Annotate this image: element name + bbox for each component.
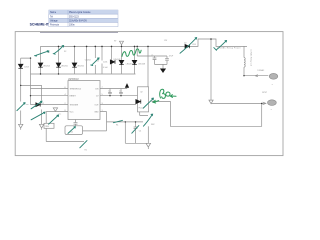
svg-text:TRIGGER: TRIGGER bbox=[70, 105, 79, 107]
svg-text:C2: C2 bbox=[108, 90, 110, 92]
svg-text:D203: D203 bbox=[24, 67, 29, 69]
svg-text:S3: S3 bbox=[97, 61, 99, 63]
svg-text:RMS: RMS bbox=[45, 126, 50, 128]
svg-text:C3: C3 bbox=[119, 90, 121, 92]
svg-text:RL: RL bbox=[116, 125, 118, 127]
svg-text:110v/60v 9V/4.5V: 110v/60v 9V/4.5V bbox=[69, 21, 87, 23]
svg-text:D1N4148: D1N4148 bbox=[114, 59, 121, 61]
svg-text:120VAC: 120VAC bbox=[257, 69, 265, 72]
svg-text:9V: 9V bbox=[114, 41, 117, 43]
svg-text:U2: U2 bbox=[140, 92, 142, 94]
svg-text:0.1uF: 0.1uF bbox=[103, 67, 109, 69]
svg-text:C1: C1 bbox=[151, 55, 153, 57]
svg-text:Potencia: Potencia bbox=[50, 24, 60, 27]
svg-text:SCHEME-IT: SCHEME-IT bbox=[30, 23, 50, 27]
svg-text:D1: D1 bbox=[42, 103, 44, 105]
svg-text:RESET: RESET bbox=[70, 96, 77, 98]
svg-text:Tel: Tel bbox=[50, 16, 53, 18]
svg-text:1: 1 bbox=[102, 110, 103, 112]
svg-text:DPST: DPST bbox=[262, 92, 268, 94]
svg-text:555-0123: 555-0123 bbox=[69, 16, 79, 18]
svg-text:4: 4 bbox=[65, 94, 66, 96]
svg-text:3: 3 bbox=[102, 103, 103, 105]
svg-text:110VAC Relay Coil: 110VAC Relay Coil bbox=[249, 49, 252, 66]
svg-text:6: 6 bbox=[65, 87, 66, 89]
svg-text:S2: S2 bbox=[64, 51, 66, 53]
svg-text:C4: C4 bbox=[139, 131, 141, 133]
svg-text:GND: GND bbox=[94, 111, 99, 113]
svg-text:7: 7 bbox=[102, 87, 103, 89]
svg-text:LED206: LED206 bbox=[77, 66, 84, 68]
svg-text:D2: D2 bbox=[184, 42, 186, 44]
svg-text:LM555CM: LM555CM bbox=[68, 79, 79, 81]
svg-text:2: 2 bbox=[65, 103, 66, 105]
svg-text:120VAC Relay Power: 120VAC Relay Power bbox=[217, 47, 241, 50]
svg-text:THRESHOLD: THRESHOLD bbox=[70, 88, 82, 90]
svg-text:Placa Logica Celeste: Placa Logica Celeste bbox=[69, 11, 91, 14]
svg-text:LED208: LED208 bbox=[138, 63, 145, 65]
svg-text:C201: C201 bbox=[103, 62, 108, 64]
svg-text:12V: 12V bbox=[164, 40, 168, 42]
svg-text:Voltage: Voltage bbox=[50, 20, 58, 23]
svg-text:CR202: CR202 bbox=[85, 60, 91, 62]
svg-text:LED207: LED207 bbox=[126, 63, 133, 65]
svg-text:CR4: CR4 bbox=[192, 44, 196, 46]
svg-text:vcc: vcc bbox=[26, 104, 29, 106]
svg-text:1MC: 1MC bbox=[151, 124, 156, 126]
svg-text:8: 8 bbox=[65, 110, 66, 112]
svg-text:100w: 100w bbox=[69, 25, 75, 27]
svg-text:~: ~ bbox=[272, 82, 274, 86]
svg-text:Name: Name bbox=[50, 12, 57, 14]
svg-text:104: 104 bbox=[70, 132, 73, 134]
svg-text:~: ~ bbox=[271, 108, 273, 112]
svg-text:5: 5 bbox=[102, 94, 103, 96]
svg-text:VCC: VCC bbox=[70, 111, 75, 113]
svg-text:R1: R1 bbox=[85, 150, 87, 152]
svg-text:.47uF: .47uF bbox=[168, 56, 174, 58]
svg-text:LED204: LED204 bbox=[43, 66, 50, 68]
svg-text:LED205: LED205 bbox=[61, 66, 68, 68]
